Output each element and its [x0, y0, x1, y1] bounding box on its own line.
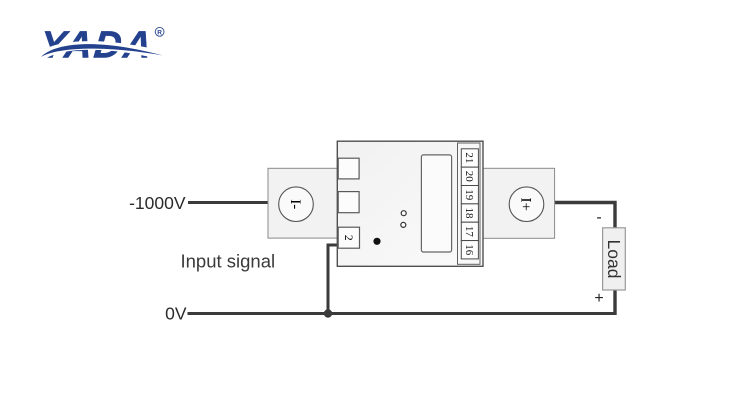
- load resistor: [603, 228, 626, 290]
- svg-text:R: R: [157, 29, 162, 36]
- wire bottom 0V: [188, 312, 617, 315]
- terminal 21: [461, 149, 478, 167]
- logo YADA: [38, 24, 163, 66]
- svg-text:Load: Load: [604, 240, 624, 279]
- left terminal circle I-: [279, 187, 314, 222]
- terminal 16: [461, 241, 478, 259]
- module led hole 2: [401, 222, 406, 227]
- module led hole 1: [401, 211, 406, 216]
- wire load to bottom: [613, 289, 616, 315]
- svg-text:0V: 0V: [165, 304, 187, 324]
- wire I+ to load: [555, 203, 616, 230]
- right terminal pad: [483, 168, 555, 238]
- terminal 2 box: [338, 227, 359, 248]
- svg-text:20: 20: [463, 171, 475, 183]
- junction node: [324, 309, 332, 317]
- wire input -1000V: [188, 201, 271, 204]
- terminal 20: [461, 167, 478, 185]
- svg-text:18: 18: [463, 208, 475, 220]
- svg-text:I-: I-: [287, 199, 303, 209]
- svg-text:-: -: [596, 209, 601, 226]
- terminal strip frame: [458, 143, 481, 264]
- svg-text:-1000V: -1000V: [129, 193, 186, 213]
- svg-text:17: 17: [463, 226, 475, 238]
- logo registered mark: [155, 27, 164, 36]
- module inner slot: [421, 155, 451, 252]
- terminal 18: [461, 204, 478, 222]
- wire from terminal 2: [328, 245, 339, 314]
- svg-text:2: 2: [342, 235, 354, 241]
- svg-text:+: +: [594, 290, 603, 307]
- right terminal circle I+: [509, 187, 544, 222]
- module body: [337, 141, 483, 266]
- left terminal pad: [268, 168, 340, 238]
- module dot: [373, 238, 380, 245]
- svg-text:21: 21: [463, 152, 475, 163]
- svg-text:19: 19: [463, 189, 475, 201]
- svg-text:16: 16: [463, 244, 475, 256]
- terminal 17: [461, 222, 478, 240]
- terminal 19: [461, 186, 478, 204]
- module tab 2: [338, 192, 359, 213]
- module tab 1: [338, 158, 359, 179]
- svg-text:Input signal: Input signal: [181, 251, 276, 272]
- svg-text:I+: I+: [518, 197, 534, 210]
